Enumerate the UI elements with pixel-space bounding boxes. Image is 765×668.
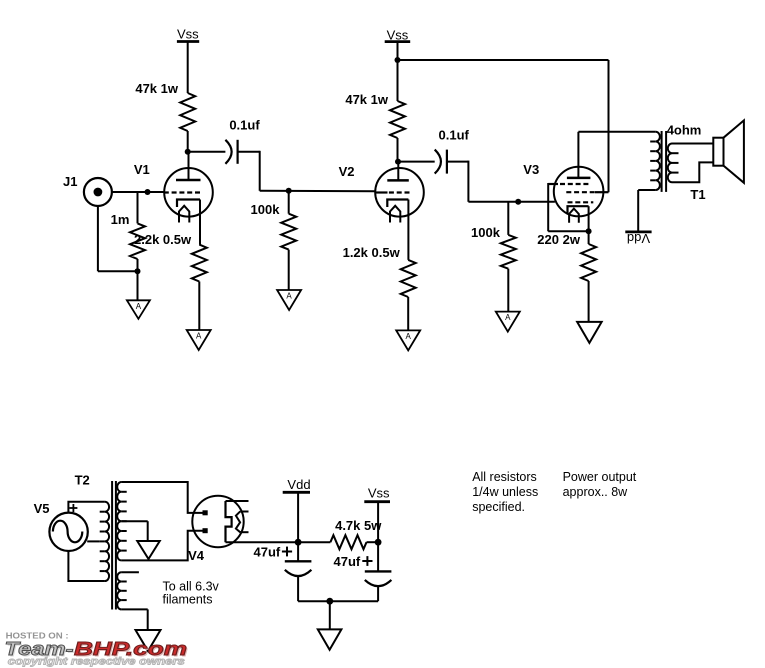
resistor R8 220 2w (V3 cathode) — [581, 231, 596, 322]
triode V2 filament — [390, 206, 400, 223]
svg-text:filaments: filaments — [163, 593, 213, 607]
svg-text:47k 1w: 47k 1w — [345, 92, 389, 107]
watermark copyright — [8, 657, 186, 668]
pentode V3 cathode — [568, 206, 589, 231]
wire Vss to R1 — [187, 42, 189, 94]
wire T1 secondary to speaker — [672, 144, 713, 183]
power rail Vss (supply) — [364, 486, 390, 502]
resistor R6 100k (V3 grid leak) — [501, 202, 516, 312]
resistor R3 1m (grid resistor) — [130, 192, 145, 271]
note power output — [563, 470, 637, 499]
node R3 ground junction — [135, 268, 141, 274]
wire J1 to V1 grid — [112, 191, 164, 193]
svg-text:specified.: specified. — [472, 500, 525, 514]
wire Vdd rail to node — [297, 492, 299, 542]
source V5 AC mains — [49, 513, 87, 551]
transformer T2 HV secondary winding — [117, 482, 126, 560]
svg-text:1m: 1m — [111, 212, 130, 227]
wire 6.3v filament tap — [121, 571, 138, 573]
node Vss rail junction — [395, 57, 401, 63]
pentode V3 plate — [567, 132, 591, 178]
ground (6.3v winding) — [136, 630, 161, 651]
label V4 — [188, 548, 205, 563]
svg-text:1/4w unless: 1/4w unless — [472, 485, 538, 499]
label R3 value 1m — [111, 212, 130, 227]
label C3 value 47uf — [254, 545, 281, 560]
ground A (V1 cathode) — [187, 330, 211, 350]
wire R5 to V2 plate node — [397, 138, 399, 162]
label C2 value 0.1uf — [439, 128, 470, 143]
triode V1 filament — [179, 206, 189, 223]
wire plate node to C2 — [398, 161, 435, 163]
note resistor spec — [472, 470, 538, 514]
wire J1 sleeve to ground node — [98, 206, 138, 271]
wire Vss rail to node — [377, 502, 379, 543]
label C4 value 47uf — [334, 554, 361, 569]
svg-text:V3: V3 — [523, 162, 539, 177]
wire V5 to T2 primary top — [68, 502, 105, 513]
wire R4 to ground — [198, 282, 200, 331]
svg-text:A: A — [286, 292, 292, 301]
svg-text:47uf: 47uf — [334, 554, 361, 569]
pentode V3 suppressor tie to cathode — [548, 183, 588, 231]
wire Vss node to R5 — [397, 60, 399, 101]
svg-text:100k: 100k — [471, 225, 501, 240]
rectifier V4 heater stub 1 — [240, 511, 248, 513]
triode V2 plate — [387, 162, 409, 181]
svg-text:copyright respective owners: copyright respective owners — [8, 657, 186, 668]
connector J1 input jack — [84, 178, 112, 206]
ground (V3 cathode) — [577, 322, 602, 343]
svg-text:T2: T2 — [75, 473, 90, 488]
watermark hosted on — [6, 632, 69, 641]
node ground rail junction — [326, 598, 333, 605]
capacitor C2 0.1uf — [435, 150, 447, 174]
svg-text:1.2k 0.5w: 1.2k 0.5w — [343, 245, 401, 260]
svg-text:J1: J1 — [63, 174, 77, 189]
pentode V3 screen grid g2 — [566, 191, 608, 193]
triode V2 grid — [375, 191, 410, 193]
wire V2 cathode to R7 — [407, 200, 409, 260]
svg-text:A: A — [505, 313, 511, 322]
label R8 value 220 2w — [537, 232, 581, 247]
wire V3 plate to T1 primary — [578, 131, 655, 133]
label T2 — [75, 473, 90, 488]
triode V2 cathode — [387, 200, 408, 208]
wire C2 to V3 grid — [447, 161, 555, 202]
svg-text:Vdd: Vdd — [287, 477, 310, 492]
label T1 — [690, 187, 705, 202]
label C3 polarity + — [282, 547, 292, 557]
capacitor C3 47uf — [285, 561, 312, 576]
rectifier V4 heater — [236, 511, 240, 532]
svg-text:Vdd: Vdd — [627, 231, 650, 246]
wire V1 cathode to R4 — [199, 200, 201, 245]
label R4 value 2.2k 0.5w — [134, 232, 192, 247]
ground A (input) — [127, 300, 150, 319]
label R7 value 1.2k 0.5w — [343, 245, 401, 260]
svg-text:To all 6.3v: To all 6.3v — [163, 580, 220, 594]
rectifier V4 plate 1 — [203, 510, 208, 515]
svg-text:Power output: Power output — [563, 470, 637, 484]
wire ground rail to ground — [329, 601, 331, 629]
label T1 secondary 4ohm — [667, 123, 702, 138]
pentode V3 envelope — [554, 167, 604, 217]
resistor R9 4.7k 5w — [298, 535, 378, 549]
triode V1 cathode — [177, 200, 200, 208]
resistor R1 47k 1w — [180, 93, 195, 131]
ground A (R6 100k) — [496, 312, 520, 332]
power rail Vss (stage 2) — [385, 28, 411, 43]
svg-text:2.2k 0.5w: 2.2k 0.5w — [134, 232, 192, 247]
wire T2 6.3v bottom to ground — [121, 609, 147, 630]
label C4 polarity + — [362, 556, 372, 566]
wire V4 cathode to Vdd node — [226, 541, 299, 543]
label V3 — [523, 162, 539, 177]
svg-text:All resistors: All resistors — [472, 470, 537, 484]
label R5 value 47k 1w — [345, 92, 389, 107]
wire V5 to T2 primary bottom — [68, 550, 105, 581]
transformer T1 primary winding — [650, 132, 660, 190]
transformer T1 secondary winding — [668, 144, 679, 183]
pentode V3 filament — [569, 209, 579, 223]
svg-text:V5: V5 — [34, 501, 50, 516]
triode V2 envelope — [375, 168, 424, 217]
rectifier V4 plate 2 — [203, 528, 208, 533]
resistor R7 1.2k 0.5w (V2 cathode) — [401, 260, 416, 297]
wire ground rail — [298, 600, 378, 602]
label J1 — [63, 174, 77, 189]
wire Vss to node — [397, 42, 399, 60]
rectifier V4 cathode — [226, 501, 232, 542]
node V3 cathode junction — [586, 228, 592, 234]
capacitor C1 0.1uf — [225, 140, 237, 164]
svg-text:V4: V4 — [188, 548, 205, 563]
node Vdd junction — [295, 539, 302, 546]
rectifier V4 heater stub 2 — [240, 531, 248, 533]
svg-text:A: A — [196, 332, 202, 341]
pentode V3 control grid g1 — [568, 201, 594, 203]
ground A (V2 cathode) — [396, 330, 420, 350]
svg-text:T1: T1 — [690, 187, 705, 202]
label To all 6.3v filaments — [163, 580, 220, 607]
transformer T2 core — [112, 481, 116, 610]
node Vss junction — [375, 539, 382, 546]
capacitor C4 47uf — [365, 571, 392, 586]
wire plate node to C1 — [188, 151, 226, 153]
power rail Vss (stage 1) — [177, 27, 199, 42]
transformer T2 6.3v winding — [117, 572, 126, 609]
svg-text:220 2w: 220 2w — [537, 232, 581, 247]
wire T2 HV top to V4 plate 1 — [121, 482, 202, 513]
node V2 grid junction — [286, 188, 292, 194]
label V5 — [34, 501, 50, 516]
rectifier V4 cathode top stub — [226, 500, 249, 502]
label V2 — [339, 164, 355, 179]
svg-text:0.1uf: 0.1uf — [229, 117, 260, 132]
wire C3 to ground rail — [297, 577, 299, 602]
resistor R4 2.2k 0.5w (V1 cathode) — [192, 245, 207, 282]
label V5 polarity + — [69, 504, 77, 512]
svg-text:47uf: 47uf — [254, 545, 281, 560]
wire C1 to V2 grid — [238, 151, 376, 191]
watermark Team-BHP.com — [5, 638, 189, 661]
svg-text:4.7k 5w: 4.7k 5w — [335, 518, 382, 533]
wire T1 primary to Vdd — [638, 190, 656, 232]
wire T2 center tap to ground — [121, 521, 147, 541]
svg-text:47k 1w: 47k 1w — [135, 81, 179, 96]
resistor R5 47k 1w — [390, 101, 405, 138]
power rail Vdd (supply) — [283, 477, 311, 492]
wire T2 HV bottom to V4 plate 2 — [121, 531, 202, 561]
svg-text:V1: V1 — [134, 162, 150, 177]
svg-text:Vss: Vss — [368, 486, 390, 501]
ground (T2 center tap) — [137, 541, 160, 559]
power rail Vdd (output, rotated) — [625, 231, 651, 246]
svg-text:4ohm: 4ohm — [667, 123, 702, 138]
node V1 plate junction — [185, 149, 191, 155]
svg-text:A: A — [406, 332, 412, 341]
svg-text:Vss: Vss — [177, 27, 199, 42]
wire Vdd node to C3 — [297, 542, 299, 561]
transformer T1 core — [662, 131, 667, 192]
label R1 value 47k 1w — [135, 81, 179, 96]
ground A (R2 100k) — [277, 290, 301, 310]
label R6 value 100k — [471, 225, 501, 240]
node V2 plate junction — [395, 159, 401, 165]
wire R7 to ground — [407, 297, 409, 330]
svg-text:A: A — [136, 302, 142, 311]
ground (supply filter) — [318, 629, 342, 649]
wire Vss node to C4 — [377, 542, 379, 571]
svg-text:0.1uf: 0.1uf — [439, 128, 470, 143]
svg-text:V2: V2 — [339, 164, 355, 179]
node V1 grid junction — [145, 189, 151, 195]
node V3 grid junction — [515, 199, 521, 205]
speaker LS1 — [713, 120, 744, 182]
pentode V3 suppressor grid g3 — [548, 183, 590, 185]
label V1 — [134, 162, 150, 177]
rectifier V4 envelope — [192, 496, 243, 547]
triode V1 envelope — [164, 168, 213, 217]
resistor R2 100k (V2 grid leak) — [281, 191, 296, 290]
wire C4 to ground rail — [377, 587, 379, 602]
triode V1 grid — [164, 191, 201, 193]
transformer T2 primary winding — [87, 502, 109, 581]
label R9 value 4.7k 5w — [335, 518, 382, 533]
svg-text:approx.. 8w: approx.. 8w — [563, 485, 629, 499]
svg-text:100k: 100k — [251, 202, 281, 217]
wire R1 to V1 plate node — [187, 131, 189, 152]
wire Vss rail to V3 screen (top right) — [398, 60, 609, 192]
triode V1 plate — [176, 152, 201, 180]
label C1 value 0.1uf — [229, 117, 260, 132]
label R2 value 100k — [251, 202, 281, 217]
wire ground node to ground — [137, 271, 139, 300]
